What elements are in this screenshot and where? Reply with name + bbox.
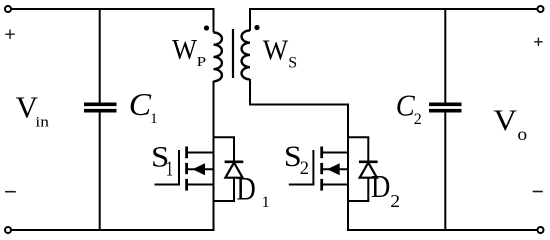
wire secondary bottom to S2 drain	[250, 79, 348, 105]
svg-text:o: o	[517, 124, 527, 144]
terminal input -	[5, 227, 11, 233]
svg-text:W: W	[172, 34, 197, 66]
transformer secondary winding WS	[242, 30, 250, 79]
transistor S2 drain connection	[322, 152, 349, 154]
transistor S1 source connection	[187, 184, 214, 186]
diode D1 triangle	[225, 163, 242, 178]
svg-text:2: 2	[300, 159, 309, 179]
transistor S2 channel middle segment	[320, 163, 323, 174]
svg-text:P: P	[197, 55, 207, 70]
transformer primary winding WP	[214, 33, 222, 82]
svg-text:V: V	[493, 104, 517, 137]
wire S1 drain-source vertical	[213, 81, 215, 231]
polarity dot primary	[204, 25, 209, 30]
svg-text:2: 2	[390, 191, 400, 211]
svg-text:W: W	[263, 34, 289, 66]
capacitor C1	[84, 103, 117, 107]
diode D2 loop wire	[348, 137, 368, 201]
wire primary top drop	[213, 8, 215, 33]
svg-text:1: 1	[166, 156, 174, 180]
svg-text:2: 2	[414, 111, 422, 128]
svg-text:D: D	[371, 168, 390, 204]
transistor S2 gate bar	[312, 150, 314, 186]
wire C2 upper leg	[444, 8, 446, 104]
terminal output +	[538, 6, 544, 12]
svg-text:D: D	[236, 172, 255, 208]
svg-text:C: C	[129, 86, 152, 122]
transformer core	[232, 29, 234, 78]
svg-text:C: C	[396, 88, 415, 123]
svg-text:1: 1	[150, 111, 158, 127]
wire C2 lower leg	[444, 111, 446, 231]
transistor S1 channel middle segment	[185, 163, 188, 174]
polarity + input	[5, 30, 14, 39]
capacitor C2	[429, 103, 462, 107]
wire top-left rail	[11, 8, 215, 10]
wire top-right rail	[249, 8, 538, 10]
transistor S2 channel top segment	[320, 147, 323, 159]
transistor S1 channel bottom segment	[185, 179, 188, 191]
diode D1 loop wire	[214, 137, 235, 201]
wire C1 lower leg	[99, 111, 101, 231]
transistor S2 source connection	[322, 184, 349, 186]
transistor S2 gate lead	[289, 184, 314, 186]
terminal output -	[538, 227, 544, 233]
transistor S2 body connection with arrow	[323, 168, 349, 170]
transistor S2 channel bottom segment	[320, 179, 323, 191]
svg-text:S: S	[288, 54, 297, 71]
svg-text:in: in	[35, 114, 49, 130]
svg-text:1: 1	[262, 194, 270, 211]
wire bottom-right rail	[347, 229, 538, 231]
transistor S1 gate lead	[155, 184, 180, 186]
transistor S1 drain connection	[187, 152, 214, 154]
wire S2 drain-source vertical	[347, 104, 349, 232]
transistor S1 gate bar	[178, 150, 180, 186]
transistor S1 channel top segment	[185, 147, 188, 159]
wire bottom-left rail	[11, 229, 215, 231]
wire C1 upper leg	[99, 8, 101, 104]
diode D2 triangle	[360, 163, 377, 178]
diode D1 cathode bar	[225, 161, 244, 164]
polarity + output	[534, 38, 542, 46]
wire secondary top drop	[249, 8, 251, 31]
diode D2 cathode bar	[359, 161, 378, 164]
polarity - output	[533, 191, 543, 193]
polarity - input	[5, 191, 16, 193]
terminal input +	[5, 6, 11, 12]
polarity dot secondary	[254, 25, 259, 30]
transistor S1 body connection with arrow	[188, 168, 215, 170]
